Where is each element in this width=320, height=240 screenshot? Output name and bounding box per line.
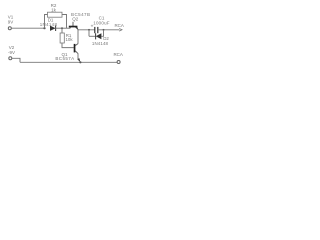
node C junction <box>88 29 90 31</box>
wire R1 bottom to Q1 base <box>62 43 74 48</box>
svg-text:1000uF: 1000uF <box>93 20 110 25</box>
svg-text:RCA: RCA <box>113 52 123 57</box>
wire Q1 collector vertical <box>77 30 79 44</box>
wire D1 to Q2 <box>56 27 71 29</box>
svg-text:1N4148: 1N4148 <box>92 41 109 46</box>
wire node B down to R1 <box>61 28 63 33</box>
svg-text:1k: 1k <box>51 8 57 13</box>
svg-text:9V: 9V <box>8 20 14 25</box>
node B junction <box>61 27 63 29</box>
wire node C down to D2 <box>88 30 90 37</box>
svg-text:RCA: RCA <box>114 23 124 28</box>
bottom rail wire <box>20 61 117 63</box>
wire Q2 emitter / output node <box>78 29 95 31</box>
resistor R2 body <box>48 12 63 17</box>
wire V2 to bottom rail <box>12 58 20 62</box>
transistor Q1 <box>74 44 81 63</box>
svg-text:10k: 10k <box>65 37 73 42</box>
capacitor C1 plates <box>95 27 98 33</box>
source V1 terminal <box>8 27 11 30</box>
wire Q1 emitter vertical <box>77 53 79 59</box>
wire C1 right to node D <box>98 29 120 31</box>
resistor R2 label <box>51 3 57 12</box>
capacitor C1 plus sign <box>91 25 93 27</box>
transistor Q2 <box>69 22 78 30</box>
output RCA terminal bottom <box>117 61 120 64</box>
svg-text:BC557A: BC557A <box>55 56 74 61</box>
wire V1 to node A <box>11 27 44 29</box>
source V2 terminal <box>9 57 12 60</box>
wire node A up to R2 <box>45 15 48 29</box>
resistor R1 label <box>65 33 73 42</box>
capacitor C1 label <box>93 16 110 26</box>
wire D2 to node D <box>101 30 103 37</box>
diode D1 <box>50 25 56 31</box>
diode D1 label <box>40 18 58 27</box>
source V1 label <box>8 15 14 25</box>
wire D2 anode <box>89 35 96 37</box>
resistor R1 body <box>60 33 64 43</box>
svg-text:Q2: Q2 <box>72 17 79 22</box>
transistor Q2 label <box>71 12 90 22</box>
svg-text:1N4148: 1N4148 <box>40 22 58 27</box>
wire R2 right to node B <box>62 15 67 29</box>
node E junction <box>79 61 81 63</box>
node D junction <box>103 29 105 31</box>
output arrow top <box>119 29 122 32</box>
transistor Q1 label <box>55 52 74 61</box>
source V2 label <box>8 45 15 55</box>
node A junction <box>43 27 45 29</box>
diode D2 <box>96 33 102 39</box>
svg-text:-9V: -9V <box>8 50 15 55</box>
diode D2 label <box>92 36 109 46</box>
